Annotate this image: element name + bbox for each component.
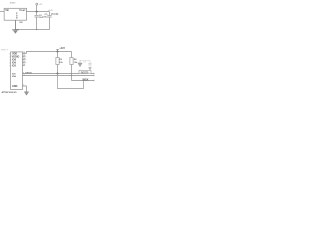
junction dot R3 bottom on wire A [57,73,59,75]
svg-text:GND: GND [12,85,18,88]
svg-text:5: 5 [9,65,10,67]
svg-text:IOA: IOA [12,75,16,78]
connector end tick wire A [93,73,95,75]
svg-text:C7: C7 [83,61,85,63]
junction dot R4 bottom on wire B [71,75,72,76]
regulator U1 body [4,8,26,20]
svg-text:1: 1 [9,53,10,55]
svg-text:2: 2 [9,56,10,58]
resistor R4 body [70,58,73,65]
wire B [22,75,94,77]
svg-text:IO5: IO5 [12,65,17,68]
wire A IC to series box [22,73,79,75]
power flag at R net [57,50,59,52]
svg-text:+3.3V: +3.3V [48,10,54,12]
pin stub row 4 [22,62,24,64]
junction dot cap C2 at rail [36,29,37,30]
wire pin1 riser [26,52,71,54]
svg-text:+3V3: +3V3 [59,48,65,50]
svg-text:GND: GND [15,12,17,19]
capacitor C3 corner lead from wire [49,12,51,16]
ground symbol triangle [13,30,18,33]
svg-text:16: 16 [23,52,25,54]
regulator GND lead [14,20,16,30]
svg-text:R3: R3 [59,59,63,61]
wire C from R4 corner [72,80,95,82]
svg-text:VCC33: VCC33 [51,14,59,16]
series element box on wire A [79,70,91,73]
connector end tick wire B [93,75,95,77]
resistor R4 bottom lead [71,65,73,81]
resistor R4 top lead from wire corner [71,52,73,58]
junction dot at R1 top [57,51,59,53]
power flag circle [36,3,38,5]
no-connect mark row 3 [25,59,26,61]
pin stub row 5 [22,65,24,67]
pin stub row 3 [22,59,24,61]
svg-text:PWR_F: PWR_F [1,49,9,51]
svg-text:10k: 10k [74,62,78,64]
no-connect mark row 4 [25,62,26,64]
capacitor C2 top lead [36,12,38,16]
junction dot at VCC tap [36,11,38,13]
capacitor C3 plates [47,15,51,17]
svg-text:BOOT0: BOOT0 [81,72,89,75]
svg-text:Vout: Vout [19,9,25,12]
svg-text:100n: 100n [42,16,48,18]
IC U2 body [11,52,23,90]
svg-text:GPIO0: GPIO0 [25,72,32,74]
IC GND pin route [22,86,26,92]
capacitor C2 bottom lead [36,17,38,30]
junction dot U loop to wire C [83,80,84,81]
svg-text:3: 3 [9,59,10,61]
svg-text:Vin: Vin [5,9,9,12]
wire regulator output [26,11,50,13]
wire A right stub [91,73,94,75]
ground symbol bar [12,29,19,31]
capacitor C2 plates [34,15,38,17]
pin stub row 1 [22,53,26,55]
svg-text:10k: 10k [59,62,63,64]
svg-text:GND: GND [19,22,23,24]
svg-text:15: 15 [23,55,25,57]
resistor R3 body [56,58,59,65]
ground flag mid wire [80,59,90,61]
capacitor C3 bottom lead [49,17,51,30]
svg-text:13: 13 [23,61,25,63]
ground flag stem [79,60,81,63]
connector end tick wire C [93,80,95,82]
svg-text:ATTINY1616-SO: ATTINY1616-SO [2,91,17,94]
svg-text:AMS1117: AMS1117 [10,2,17,5]
ground return U loop [58,74,84,89]
ground rail [15,29,49,31]
IC ground triangle [24,92,28,95]
svg-text:+5V: +5V [39,4,43,6]
no-connect mark row 2 [25,56,26,58]
capacitor C7 leads [89,60,91,63]
resistor R3 bottom lead [57,65,59,74]
pin stub row 2 [22,56,24,58]
svg-text:R4: R4 [74,58,78,61]
wire input stub [0,11,4,13]
capacitor C7 plates [88,62,92,64]
ground flag triangle [78,63,82,67]
ground triangle right [89,68,92,70]
resistor R3 top lead [57,52,59,58]
svg-text:4: 4 [9,61,10,64]
svg-text:12: 12 [23,64,25,66]
power flag VCC riser [36,5,38,12]
